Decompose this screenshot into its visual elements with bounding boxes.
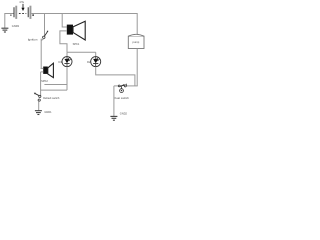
battery BT1 cell 2	[28, 6, 31, 19]
svg-text:SPK2: SPK2	[41, 79, 48, 83]
wire from ignition switch down to speaker SPK2	[41, 39, 44, 69]
battery BT1 minus label	[10, 14, 12, 16]
wire LED2 cathode drop and rail to float switch	[96, 67, 135, 86]
switch S3 Float switch	[114, 84, 130, 100]
wire LED2 anode drop	[95, 52, 97, 56]
svg-text:Ignition: Ignition	[28, 37, 38, 41]
wire float switch to ground	[113, 86, 115, 117]
svg-text:Default switch: Default switch	[43, 96, 60, 100]
LED2	[87, 57, 101, 67]
ground GND1	[35, 110, 52, 115]
svg-text:GND2: GND2	[120, 112, 128, 116]
LED1	[58, 57, 72, 67]
speaker SPK1	[67, 21, 85, 46]
battery BT1 cell 1	[14, 6, 17, 19]
wire top rail from battery to right corner	[31, 13, 137, 15]
wire right drop to pump	[136, 13, 138, 35]
ground GND3	[1, 24, 19, 32]
svg-text:SPK1: SPK1	[73, 42, 80, 46]
svg-text:GND3: GND3	[12, 24, 20, 28]
wire LED1 anode drop	[66, 52, 68, 56]
svg-text:4.5v: 4.5v	[19, 0, 25, 4]
svg-text:GND1: GND1	[44, 110, 52, 114]
wire LED1 cathode drop	[66, 67, 68, 91]
wire left drop to ground	[4, 13, 6, 28]
wire LED top rail	[67, 51, 96, 53]
wire pump bottom to float switch	[136, 49, 138, 86]
battery BT1 dashed mid link	[19, 13, 26, 15]
ground GND2	[110, 112, 127, 121]
wire loop lower link LED1 to switch column	[41, 89, 67, 91]
wire float switch right link	[126, 85, 137, 87]
wire loop upper link LED1 to switch column	[44, 84, 67, 86]
svg-text:D2: D2	[87, 60, 91, 64]
svg-text:D1: D1	[58, 60, 62, 64]
speaker SPK2	[41, 63, 53, 83]
pump M1	[128, 34, 144, 48]
svg-text:Float switch: Float switch	[114, 96, 130, 100]
wire top-left from ground corner to battery	[5, 13, 14, 15]
battery BT1 plus label	[32, 14, 34, 16]
wire float switch left link	[114, 85, 118, 87]
battery BT1 value label 4.5v with pointer arrow	[19, 0, 25, 11]
wire SPK2 top pin	[41, 67, 44, 69]
wire ignition branch drop	[44, 13, 46, 36]
switch S2 Default switch	[34, 93, 60, 101]
wire default switch to ground	[38, 101, 40, 111]
switch S1 Ignition	[28, 31, 48, 42]
wire SPK2 bottom pin down to default switch	[41, 72, 44, 96]
wire speaker SPK1 bottom pin to LED rail	[60, 31, 67, 52]
wire speaker branch drop	[62, 13, 67, 27]
svg-text:pump: pump	[133, 41, 140, 44]
